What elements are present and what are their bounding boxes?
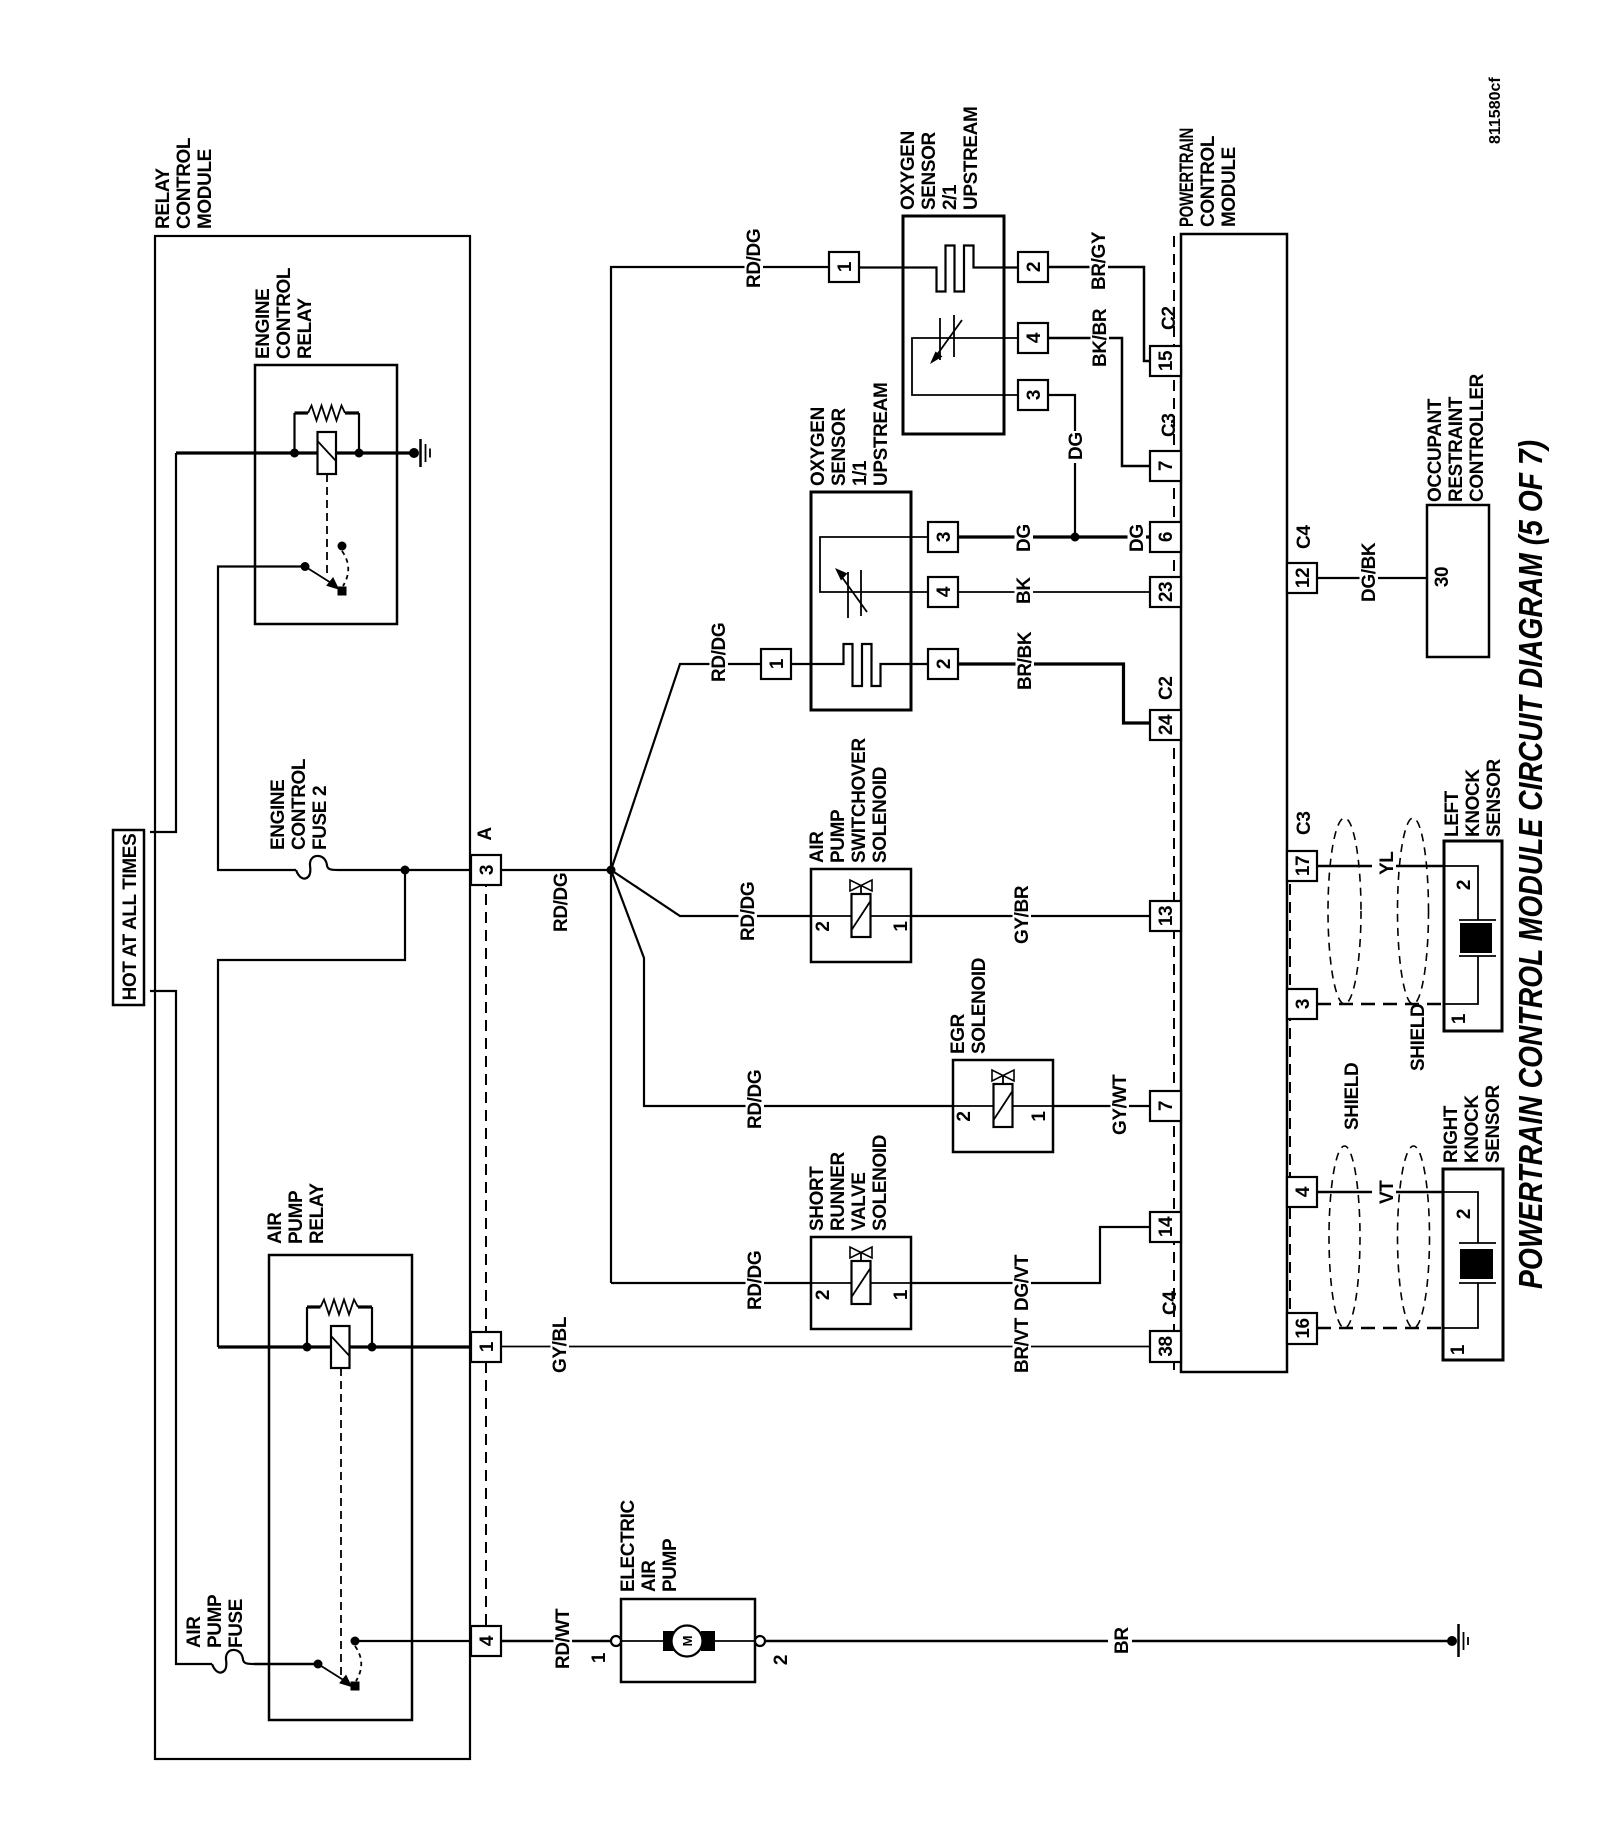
wire BK from O2 1/1 pin 4 to PCM pin 23 [958, 591, 1150, 593]
wire: RD/DG branch to EGR solenoid [611, 870, 953, 1106]
svg-text:38: 38 [1156, 1336, 1177, 1356]
svg-text:EGR: EGR [948, 1013, 969, 1054]
svg-text:CONTROL: CONTROL [1198, 135, 1219, 227]
svg-text:1: 1 [1029, 1111, 1050, 1122]
label EGR SOLENOID [948, 958, 990, 1054]
svg-text:24: 24 [1156, 714, 1177, 735]
label RIGHT KNOCK SENSOR [1441, 1084, 1504, 1163]
APSS solenoid symbol [850, 880, 872, 937]
left knock sensor shield ellipses [1328, 818, 1361, 1004]
label RELAY CONTROL MODULE [153, 137, 216, 229]
ECR coil [318, 432, 337, 474]
svg-text:C3: C3 [1294, 812, 1315, 836]
svg-text:4: 4 [1293, 1186, 1314, 1197]
svg-text:RD/WT: RD/WT [553, 1608, 574, 1669]
svg-text:SOLENOID: SOLENOID [969, 958, 990, 1054]
svg-text:LEFT: LEFT [1442, 790, 1463, 837]
PCM pin 13 [1150, 901, 1181, 931]
O2 2/1 heater element [859, 246, 1018, 292]
wire: branch to air pump relay coil [218, 870, 405, 1347]
O2 1/1 variable element symbol [835, 568, 867, 618]
O2 2/1 pin 4 box [1018, 323, 1048, 353]
svg-text:AIR: AIR [184, 1616, 205, 1648]
O2 1/1 pin 2 box [928, 649, 958, 679]
label OCCUPANT RESTRAINT CONTROLLER [1425, 373, 1488, 502]
svg-text:1: 1 [1449, 1013, 1470, 1024]
svg-text:1: 1 [767, 658, 788, 669]
ECR coil-to-switch dashed link [326, 474, 328, 578]
svg-text:3: 3 [1293, 999, 1314, 1009]
svg-text:1: 1 [891, 921, 912, 932]
svg-text:2: 2 [813, 921, 834, 931]
svg-text:SENSOR: SENSOR [919, 131, 940, 210]
svg-text:SOLENOID: SOLENOID [870, 1135, 891, 1231]
svg-text:FUSE 2: FUSE 2 [310, 786, 331, 850]
svg-text:3: 3 [1024, 390, 1045, 400]
wire: hot feed to engine control relay coil [150, 453, 176, 832]
wire: fuse to APR switch [254, 1663, 318, 1666]
svg-text:RD/DG: RD/DG [745, 1070, 766, 1129]
svg-text:BR/GY: BR/GY [1089, 231, 1110, 290]
svg-text:RD/DG: RD/DG [738, 882, 759, 941]
svg-text:CONTROL: CONTROL [174, 137, 195, 229]
svg-text:C2: C2 [1156, 677, 1177, 701]
PCM pin 7 (C3) [1150, 451, 1181, 481]
svg-text:OXYGEN: OXYGEN [898, 131, 919, 210]
O2 1/1 pin 1 box [761, 649, 791, 679]
wire GY/WT to PCM pin 7 [1053, 1105, 1150, 1107]
svg-text:4: 4 [1024, 332, 1045, 343]
label LEFT KNOCK SENSOR [1442, 758, 1505, 837]
svg-text:RESTRAINT: RESTRAINT [1446, 396, 1467, 502]
PCM right connector dashed line [1289, 866, 1291, 1314]
pump terminal circles [611, 1636, 621, 1646]
svg-text:7: 7 [1156, 1101, 1177, 1111]
svg-text:SENSOR: SENSOR [1484, 758, 1505, 837]
ECR parallel resistor [295, 406, 360, 450]
svg-text:PUMP: PUMP [660, 1538, 681, 1592]
svg-text:1: 1 [891, 1289, 912, 1300]
node: RD/DG splice [607, 866, 616, 875]
wire DG/BK to occupant restraint controller [1317, 577, 1427, 579]
oxygen sensor 2/1 upstream box [903, 216, 1004, 434]
svg-text:OXYGEN: OXYGEN [808, 407, 829, 486]
label HOT AT ALL TIMES (boxed) [113, 830, 144, 1005]
occupant restraint controller box [1427, 505, 1489, 657]
svg-text:BR/VT: BR/VT [1012, 1317, 1033, 1373]
svg-text:30: 30 [1432, 567, 1453, 587]
svg-text:BK/BR: BK/BR [1090, 308, 1111, 367]
svg-text:POWERTRAIN CONTROL MODULE CIRC: POWERTRAIN CONTROL MODULE CIRCUIT DIAGRA… [1512, 440, 1549, 1289]
svg-text:12: 12 [1293, 568, 1314, 588]
PCM pin 17 (right) [1287, 851, 1317, 881]
APR parallel resistor [307, 1300, 372, 1344]
fuse ENGINE CONTROL FUSE 2 [296, 856, 338, 879]
wire DG from O2 2/1 pin 3 down to splice [1048, 395, 1075, 537]
svg-text:CONTROLLER: CONTROLLER [1467, 373, 1488, 502]
svg-text:2: 2 [1454, 880, 1475, 890]
wire VT to right knock sensor [1317, 1191, 1443, 1194]
svg-text:RD/DG: RD/DG [745, 1251, 766, 1310]
wire RD/DG trunk from connector 3 [501, 869, 611, 871]
wire: fuse2 to connector 3 [338, 869, 471, 871]
label AIR PUMP SWITCHOVER SOLENOID [807, 738, 891, 863]
label AIR PUMP FUSE [184, 1594, 247, 1648]
air pump switchover solenoid box [811, 869, 911, 962]
wire: ECR switch feed [218, 567, 305, 871]
SRV solenoid symbol [850, 1247, 872, 1304]
wire: hot feed down to air pump fuse [150, 991, 212, 1664]
svg-text:15: 15 [1156, 350, 1177, 371]
svg-text:C4: C4 [1160, 1291, 1181, 1315]
O2 2/1 sense element lines [912, 338, 1018, 395]
wire YL to left knock sensor [1317, 865, 1444, 868]
svg-text:14: 14 [1156, 1216, 1177, 1237]
svg-text:GY/BR: GY/BR [1012, 885, 1033, 944]
svg-text:RUNNER: RUNNER [828, 1151, 849, 1231]
SRV internal wire [811, 1282, 911, 1284]
svg-text:23: 23 [1156, 582, 1177, 602]
svg-text:1: 1 [1448, 1344, 1469, 1355]
svg-text:FUSE: FUSE [226, 1599, 247, 1648]
wire: APR coil line to connector 1 [218, 1345, 471, 1348]
PCM pin 16 (right) [1287, 1313, 1317, 1344]
svg-text:1/1: 1/1 [850, 460, 871, 486]
PCM pin 12 (right) [1287, 563, 1317, 593]
pump internal wire [621, 1640, 755, 1642]
wire DG/VT to PCM pin 14 [911, 1227, 1150, 1283]
wire: RD/DG branch to short runner valve solenoid [611, 1282, 811, 1284]
svg-text:SENSOR: SENSOR [829, 407, 850, 486]
svg-text:RD/DG: RD/DG [551, 873, 572, 932]
PCM pin 38 [1150, 1331, 1181, 1362]
svg-text:RIGHT: RIGHT [1441, 1105, 1462, 1163]
svg-text:KNOCK: KNOCK [1462, 1095, 1483, 1163]
svg-text:6: 6 [1156, 532, 1177, 542]
O2 2/1 variable element symbol [930, 315, 962, 364]
short runner valve solenoid box [811, 1237, 911, 1329]
svg-text:PUMP: PUMP [286, 1190, 307, 1244]
PCM pin 7 (C4 area) [1150, 1091, 1181, 1121]
wire SHIELD (left knock sensor) [1317, 1003, 1444, 1005]
connector pin 4 [471, 1626, 501, 1656]
PCM pin 14 [1150, 1212, 1181, 1242]
svg-text:MODULE: MODULE [1219, 147, 1240, 227]
wire: RD/DG branch to oxygen sensor 1/1 pin 1 [611, 664, 761, 870]
svg-text:4: 4 [477, 1635, 498, 1646]
O2 2/1 pin 3 box [1018, 380, 1048, 410]
svg-text:SHIELD: SHIELD [1342, 1063, 1363, 1130]
svg-text:2/1: 2/1 [940, 184, 961, 210]
svg-text:HOT AT ALL TIMES: HOT AT ALL TIMES [120, 834, 141, 1001]
svg-text:1: 1 [589, 1652, 610, 1663]
svg-text:C4: C4 [1294, 525, 1315, 549]
svg-text:GY/BL: GY/BL [550, 1316, 571, 1373]
svg-text:3: 3 [934, 532, 955, 542]
svg-text:BK: BK [1014, 577, 1035, 604]
left knock sensor internals [1444, 866, 1496, 1004]
node: DG splice [1071, 533, 1080, 542]
label OXYGEN SENSOR 1/1 UPSTREAM [808, 383, 892, 486]
connector dashed boundary line [485, 858, 487, 1653]
label POWERTRAIN CONTROL MODULE [1177, 128, 1240, 227]
svg-text:SENSOR: SENSOR [1483, 1084, 1504, 1163]
svg-text:YL: YL [1377, 851, 1398, 875]
svg-text:1: 1 [477, 1341, 498, 1352]
O2 1/1 heater element [791, 644, 928, 686]
svg-text:M: M [680, 1636, 695, 1647]
svg-text:2: 2 [813, 1290, 834, 1300]
wire BR/BK from O2 1/1 pin 2 to PCM pin 24 [958, 664, 1150, 723]
svg-text:CONTROL: CONTROL [289, 758, 310, 850]
svg-text:UPSTREAM: UPSTREAM [961, 107, 982, 210]
svg-text:2: 2 [1454, 1209, 1475, 1219]
svg-text:811580cf: 811580cf [1487, 77, 1504, 144]
wire: RD/DG riser and branch to oxygen sensor 2/1 pin 1 [611, 267, 829, 1283]
PCM pin 15 [1150, 346, 1181, 376]
label ELECTRIC AIR PUMP [618, 1500, 681, 1592]
PCM pin 24 [1150, 710, 1181, 740]
APR switch [314, 1637, 362, 1691]
svg-text:2: 2 [771, 1655, 792, 1665]
motor M [672, 1626, 703, 1657]
svg-text:MODULE: MODULE [195, 149, 216, 229]
svg-text:SOLENOID: SOLENOID [870, 767, 891, 863]
svg-text:UPSTREAM: UPSTREAM [871, 383, 892, 486]
svg-text:2: 2 [1024, 262, 1045, 272]
connector pin 3 [471, 855, 501, 885]
wire RD/WT from connector 4 to electric air pump [501, 1640, 613, 1643]
oxygen sensor 1/1 upstream box [811, 492, 911, 710]
svg-text:AIR: AIR [807, 831, 828, 863]
svg-text:A: A [475, 827, 496, 841]
PCM pin 3 (right) [1287, 989, 1317, 1019]
node: junction below fuse 2 [401, 866, 410, 875]
svg-text:AIR: AIR [639, 1560, 660, 1592]
node: ECR coil junction dots [290, 449, 299, 458]
wire BK/BR to PCM pin 7 [1048, 338, 1150, 466]
svg-text:ENGINE: ENGINE [268, 780, 289, 850]
node: APR coil junction dots [303, 1343, 312, 1352]
svg-text:C2: C2 [1159, 307, 1180, 331]
svg-text:VALVE: VALVE [849, 1172, 870, 1231]
svg-text:CONTROL: CONTROL [274, 267, 295, 359]
APSS internal wire [811, 915, 911, 917]
wire GY/BL / BR/VT from connector 1 to PCM pin 38 [501, 1346, 1150, 1348]
PCM pin 4 (right) [1287, 1177, 1317, 1207]
svg-text:2: 2 [934, 659, 955, 669]
relay control module box [155, 236, 470, 1759]
wire DG thick from O2 1/1 pin 3 to PCM pin 6 [958, 535, 1150, 538]
svg-text:7: 7 [1156, 461, 1177, 471]
svg-text:ELECTRIC: ELECTRIC [618, 1500, 639, 1592]
svg-text:1: 1 [835, 261, 856, 272]
label ENGINE CONTROL RELAY [253, 267, 316, 359]
label OXYGEN SENSOR 2/1 UPSTREAM [898, 107, 982, 210]
svg-text:4: 4 [934, 586, 955, 597]
svg-text:3: 3 [477, 865, 498, 875]
wire BR/GY to PCM pin 15 [1048, 267, 1150, 361]
ground (engine control relay) [409, 439, 430, 467]
svg-text:ENGINE: ENGINE [253, 289, 274, 359]
EGR internal wire [953, 1105, 1053, 1107]
O2 2/1 pin 2 box [1018, 252, 1048, 282]
O2 2/1 pin 1 box [829, 252, 859, 282]
APR coil-to-switch dashed link [340, 1368, 342, 1676]
wire: ECR coil line to ground [176, 451, 414, 454]
O2 1/1 sense element lines [820, 537, 928, 592]
svg-text:PUMP: PUMP [828, 809, 849, 863]
svg-text:DG: DG [1127, 524, 1148, 552]
label ENGINE CONTROL FUSE 2 [268, 758, 331, 850]
EGR solenoid symbol [992, 1070, 1014, 1127]
motor brushes [663, 1631, 677, 1651]
PCM pin 6 [1150, 522, 1181, 552]
EGR solenoid box [953, 1060, 1053, 1152]
svg-text:VT: VT [1377, 1180, 1398, 1204]
O2 1/1 pin 4 box [928, 577, 958, 607]
svg-text:OCCUPANT: OCCUPANT [1425, 398, 1446, 502]
electric air pump box [621, 1599, 755, 1682]
svg-text:AIR: AIR [265, 1212, 286, 1244]
right knock sensor box [1443, 1169, 1503, 1360]
svg-text:BR: BR [1112, 1627, 1133, 1654]
wire: APR output to connector 4 [355, 1640, 471, 1642]
svg-text:PUMP: PUMP [205, 1594, 226, 1648]
svg-text:SHIELD: SHIELD [1408, 1004, 1429, 1071]
PCM pin 23 [1150, 577, 1181, 607]
wire: RD/DG branch to air pump switchover solenoid [611, 870, 811, 916]
svg-text:RD/DG: RD/DG [709, 623, 730, 682]
svg-text:KNOCK: KNOCK [1463, 769, 1484, 837]
ground (air pump return) [1447, 1624, 1468, 1657]
O2 1/1 pin 3 box [928, 522, 958, 552]
air pump relay box [269, 1255, 412, 1720]
svg-text:RELAY: RELAY [153, 168, 174, 229]
wire SHIELD (right knock sensor, from pin 16) [1317, 1327, 1443, 1329]
svg-text:C3: C3 [1159, 414, 1180, 438]
wire GY/BR to PCM pin 13 [911, 915, 1150, 917]
svg-text:RELAY: RELAY [307, 1183, 328, 1244]
svg-text:GY/WT: GY/WT [1110, 1074, 1131, 1135]
ECR switch [301, 542, 349, 596]
svg-text:RD/DG: RD/DG [744, 229, 765, 288]
connector pin 1 [471, 1332, 501, 1362]
label AIR PUMP RELAY [265, 1183, 328, 1244]
svg-text:RELAY: RELAY [295, 298, 316, 359]
APR coil [331, 1326, 350, 1368]
right knock sensor shield ellipses [1329, 1146, 1360, 1328]
fuse AIR PUMP FUSE [212, 1650, 254, 1673]
svg-text:POWERTRAIN: POWERTRAIN [1177, 128, 1198, 227]
svg-text:SHORT: SHORT [807, 1166, 828, 1231]
wire BR from pump to ground [765, 1640, 1449, 1643]
svg-text:DG/BK: DG/BK [1359, 542, 1380, 602]
svg-text:2: 2 [954, 1111, 975, 1121]
powertrain control module box [1181, 234, 1287, 1372]
svg-text:DG: DG [1066, 432, 1087, 460]
svg-text:DG/VT: DG/VT [1012, 1254, 1033, 1311]
right knock sensor internals [1443, 1192, 1496, 1328]
svg-text:16: 16 [1293, 1318, 1314, 1338]
PCM left connector dashed line [1173, 236, 1175, 605]
svg-text:17: 17 [1293, 856, 1314, 876]
label SHORT RUNNER VALVE SOLENOID [807, 1135, 891, 1231]
svg-text:13: 13 [1156, 906, 1177, 926]
left knock sensor box [1444, 841, 1502, 1031]
svg-text:SWITCHOVER: SWITCHOVER [849, 738, 870, 863]
svg-text:BR/BK: BR/BK [1015, 631, 1036, 690]
engine control relay box [255, 365, 397, 624]
svg-text:DG: DG [1014, 524, 1035, 552]
